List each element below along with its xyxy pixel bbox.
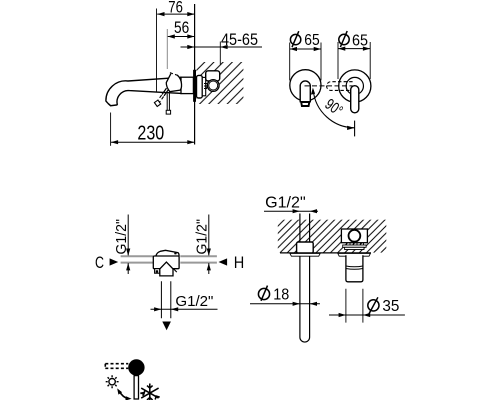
- valve escutcheon plate: [338, 253, 371, 256]
- outlet pipe: [161, 281, 170, 318]
- handle capsule front: [351, 86, 359, 113]
- dim 230 arrows: [111, 140, 195, 144]
- svg-text:76: 76: [168, 0, 183, 16]
- left G1/2 arrows: [126, 249, 130, 271]
- lever stem (down position): [167, 94, 169, 111]
- wall plate (escutcheon edge): [193, 70, 196, 102]
- dim 76 arrows: [157, 12, 194, 16]
- icon ball: [128, 359, 144, 375]
- dashed handle horizontal position: [327, 82, 353, 91]
- dim 230 ext line: [110, 113, 112, 146]
- right G1/2 arrows: [207, 249, 211, 271]
- svg-text:G1/2": G1/2": [195, 219, 211, 255]
- dim Ø35 symbol: [368, 297, 379, 314]
- dim left Ø65 line: [290, 48, 321, 50]
- spout inner bottom curve: [117, 91, 181, 105]
- G1/2 top arrows: [293, 209, 317, 213]
- svg-text:230: 230: [137, 121, 164, 144]
- dim 56 arrows: [168, 34, 195, 38]
- wall hatching: [196, 62, 243, 104]
- valve house outlet: [160, 262, 173, 276]
- icon dashed lever: [105, 364, 128, 369]
- valve bottom-right chamfer: [173, 269, 176, 272]
- svg-text:35: 35: [382, 298, 399, 315]
- left G1/2 dim line: [127, 215, 129, 256]
- valve flange bar: [343, 245, 366, 247]
- concealed valve flange: [197, 75, 203, 98]
- left escutcheon circle: [290, 70, 321, 101]
- valve bottom-left box: [155, 269, 160, 274]
- dim Ø18 arrows: [293, 302, 317, 306]
- handle knob: [166, 74, 181, 92]
- dim Ø35 arrows: [339, 313, 371, 317]
- valve body below ceiling: [346, 255, 363, 282]
- svg-text:C: C: [95, 253, 104, 272]
- cartridge inner circle: [209, 81, 218, 90]
- concealed valve spacer: [202, 77, 205, 95]
- right G1/2 dim line: [208, 215, 210, 256]
- valve flange step: [345, 247, 364, 249]
- bottom G1/2 arrows: [154, 307, 178, 311]
- valve teeth row: [347, 243, 364, 245]
- icon sun: [106, 375, 119, 388]
- H inlet triangle: [219, 258, 228, 265]
- svg-text:65: 65: [352, 32, 368, 49]
- lever solid segment: [162, 88, 169, 96]
- svg-text:G1/2": G1/2": [175, 294, 213, 310]
- knob outline: [166, 74, 181, 92]
- svg-text:45-65: 45-65: [221, 31, 258, 49]
- ceiling face line: [280, 252, 371, 254]
- ceiling hatch: [278, 220, 387, 253]
- svg-text:65: 65: [304, 32, 319, 49]
- dim Ø35 ext lines: [346, 289, 363, 323]
- dashed centerline: [305, 85, 353, 87]
- C inlet triangle: [110, 258, 119, 265]
- dim 230 line: [111, 141, 195, 143]
- dim 56 ext line: [166, 29, 168, 69]
- concealed valve top box: [206, 71, 220, 81]
- spout supply tube: [300, 214, 310, 343]
- 90 degree arc: [313, 90, 355, 128]
- dim left Ø65 symbol: [290, 31, 300, 47]
- knob dashed top edge: [170, 73, 180, 77]
- svg-text:H: H: [234, 253, 245, 272]
- tube escutcheon plate: [290, 253, 320, 256]
- lever end square: [154, 100, 160, 106]
- dim Ø18 line: [250, 303, 320, 305]
- dim right Ø65 line: [338, 48, 370, 50]
- dim 56 line: [168, 36, 195, 38]
- cartridge outer circle: [207, 80, 219, 92]
- dim 45-65 arrows: [187, 45, 227, 49]
- spout nozzle tip: [301, 102, 309, 106]
- dim Ø18 symbol: [258, 286, 269, 301]
- wall face line: [194, 4, 196, 145]
- valve body lip: [346, 266, 363, 269]
- spout tip cap: [108, 103, 118, 105]
- icon stem: [134, 376, 138, 399]
- outlet triangle: [162, 322, 171, 331]
- svg-text:56: 56: [174, 19, 189, 37]
- svg-text:18: 18: [273, 286, 289, 303]
- valve lid screw: [174, 253, 176, 255]
- right escutcheon inner circle: [346, 77, 363, 94]
- right escutcheon outer circle: [339, 70, 371, 102]
- spout outer top curve: [106, 77, 182, 103]
- lever dashed (open position): [157, 95, 164, 103]
- arc end tick: [354, 121, 356, 137]
- dim left Ø65 arrows: [290, 47, 321, 51]
- icon arrow: [120, 392, 129, 399]
- arc arrow up (at spout): [311, 88, 315, 95]
- dim 76 line: [157, 13, 194, 15]
- dim 45-65 ext line: [219, 42, 221, 65]
- valve body block: [153, 256, 179, 269]
- right G1/2 arrow tail: [208, 263, 210, 274]
- left G1/2 arrow tail: [127, 263, 129, 274]
- dim Ø35 line: [329, 314, 405, 316]
- dim right Ø65 arrows: [338, 47, 370, 51]
- dim 45-65 line: [181, 46, 263, 48]
- left pipe: [121, 256, 153, 262]
- valve box in ceiling: [341, 229, 367, 243]
- faucet body cylinder: [181, 77, 193, 93]
- dim 76 ext line: [156, 9, 158, 93]
- svg-text:G1/2": G1/2": [114, 219, 130, 255]
- dim left Ø65 ext lines: [290, 43, 321, 81]
- icon snowflake: [140, 384, 159, 400]
- valve teeth: [204, 84, 207, 89]
- dim right Ø65 symbol: [339, 31, 349, 47]
- arc arrow right (at tick): [347, 126, 354, 130]
- dim right Ø65 ext lines: [338, 42, 370, 79]
- spout front capsule: [300, 81, 310, 102]
- bottom G1/2 dim line: [151, 308, 218, 310]
- valve body lid: [156, 250, 179, 256]
- tube nut: [297, 242, 314, 253]
- G1/2 dim line top: [264, 210, 318, 212]
- valve bottom-left screw: [156, 270, 159, 273]
- right pipe: [180, 256, 217, 262]
- lever stem end box: [166, 110, 170, 114]
- valve box circle: [349, 230, 361, 242]
- svg-text:G1/2": G1/2": [265, 194, 306, 211]
